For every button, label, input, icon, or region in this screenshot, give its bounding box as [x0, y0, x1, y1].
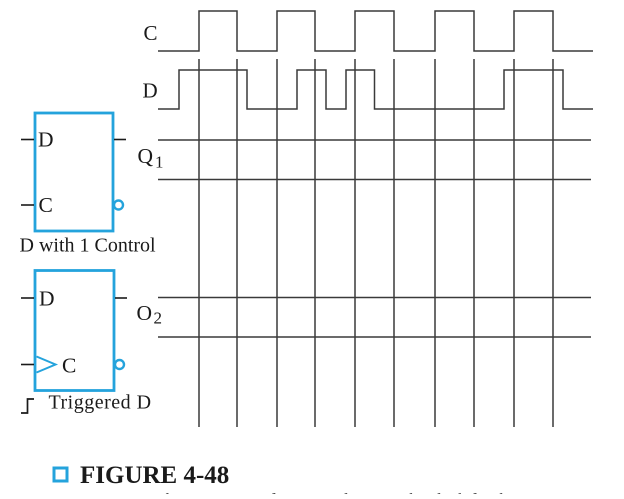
rising-edge step symbol: [21, 399, 34, 413]
svg-text:C: C: [144, 21, 158, 45]
svg-text:C: C: [62, 354, 76, 378]
svg-text:D: D: [38, 128, 54, 152]
wire: clock edge vertical line 6: [393, 59, 395, 427]
svg-text:D: D: [39, 287, 55, 311]
wire: clock edge vertical line 10: [552, 59, 554, 427]
svg-text:Q1: Q1: [138, 144, 164, 172]
flip-flop U2 pin Q stub: [115, 297, 127, 299]
svg-text:D with 1 Control: D with 1 Control: [20, 235, 157, 257]
flip-flop U2 pin C stub: [21, 364, 34, 366]
flip-flop U1 pin C stub: [21, 204, 34, 206]
wire: clock edge vertical line 5: [354, 59, 356, 427]
svg-text:FIGURE 4-48: FIGURE 4-48: [80, 462, 229, 489]
wire: clock edge vertical line 2: [236, 59, 238, 427]
wire: clock edge vertical line 9: [513, 59, 515, 427]
flip-flop U1 body: [35, 113, 113, 231]
wire: clock edge vertical line 1: [198, 59, 200, 427]
flip-flop U2 body: [35, 271, 114, 391]
flip-flop U2 pin D stub: [21, 297, 34, 299]
wire: clock edge vertical line 7: [434, 59, 436, 427]
svg-text:D: D: [143, 79, 158, 103]
flip-flop U1 output bubble: [114, 201, 123, 210]
wire: clock edge vertical line 3: [276, 59, 278, 427]
svg-text:O2: O2: [137, 301, 163, 328]
wire: O2 bottom rail: [158, 336, 591, 338]
wire: clock edge vertical line 8: [473, 59, 475, 427]
wire: O2 top rail: [158, 297, 591, 299]
flip-flop U1 pin D stub: [21, 139, 34, 141]
wire: Q1 top rail: [158, 139, 591, 141]
flip-flop U2 edge-trigger triangle: [37, 357, 56, 373]
svg-text:Triggered D: Triggered D: [49, 392, 152, 414]
svg-text:Determine the output waveforms: Determine the output waveforms in relati…: [85, 490, 561, 494]
wire: Q1 bottom rail: [158, 179, 591, 181]
wire: clock edge vertical line 4: [314, 59, 316, 427]
figure caption bullet square: [54, 468, 67, 481]
flip-flop U1 pin Q stub: [114, 139, 126, 141]
wire: clock C waveform: [158, 11, 593, 51]
flip-flop U2 output bubble: [115, 360, 124, 369]
svg-text:C: C: [39, 193, 53, 217]
wire: data D waveform: [158, 70, 593, 109]
